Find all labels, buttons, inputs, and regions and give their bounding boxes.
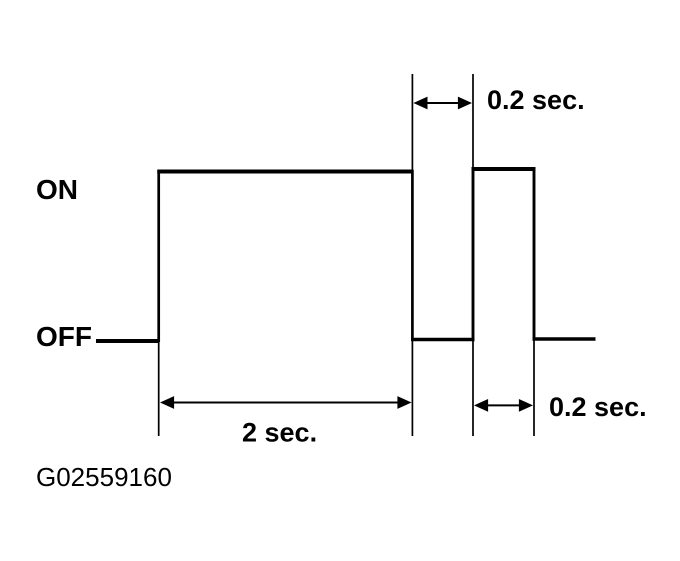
wire rising edge 2 [472, 168, 475, 341]
wire rising edge 1 [157, 170, 160, 342]
label figure number G02559160 [36, 462, 172, 492]
wire falling edge 2 [533, 168, 536, 341]
label OFF [36, 321, 92, 352]
label ON [36, 174, 78, 205]
extension line at first falling edge (x=412) [411, 74, 413, 436]
extension line below first rising edge (x=158.7) [158, 340, 160, 436]
wire ON top segment 1 [157, 170, 413, 174]
dimension arrow 2 sec (bottom, between x=159 and x=412) [160, 396, 412, 409]
svg-text:2 sec.: 2 sec. [242, 418, 317, 448]
svg-text:0.2 sec.: 0.2 sec. [549, 392, 647, 422]
svg-text:G02559160: G02559160 [36, 462, 172, 492]
svg-text:0.2 sec.: 0.2 sec. [487, 85, 585, 115]
svg-text:ON: ON [36, 174, 78, 205]
label 2 sec. [242, 418, 317, 448]
dimension arrow 0.2 sec (bottom, between x=473 and x=534) [474, 399, 533, 412]
dimension arrow 0.2 sec (top, between x=412 and x=473) [413, 97, 472, 110]
wire falling edge 1 [411, 170, 414, 341]
label 0.2 sec. (top) [487, 85, 585, 115]
extension line at second rising edge (x=473) [472, 74, 474, 436]
svg-text:OFF: OFF [36, 321, 92, 352]
extension line below second falling edge (x=534) [533, 339, 535, 436]
wire OFF lead segment [96, 339, 159, 343]
wire OFF middle segment [411, 338, 475, 342]
wire OFF tail segment [533, 337, 596, 341]
label 0.2 sec. (bottom right) [549, 392, 647, 422]
wire ON top segment 2 [472, 167, 536, 171]
